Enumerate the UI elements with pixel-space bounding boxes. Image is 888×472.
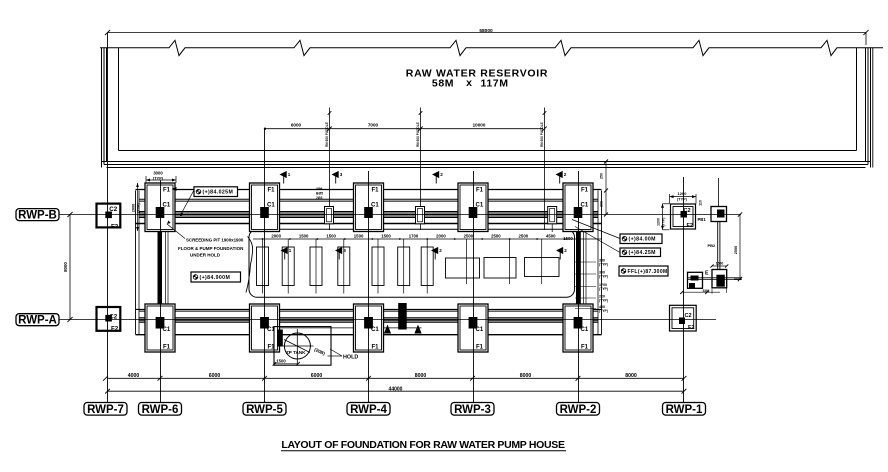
svg-text:6000: 6000 xyxy=(209,373,221,379)
svg-text:C1: C1 xyxy=(163,202,171,208)
svg-text:(TYP): (TYP) xyxy=(677,197,688,201)
svg-text:RN 600 PUDDLE: RN 600 PUDDLE xyxy=(416,122,420,147)
svg-text:(TYP): (TYP) xyxy=(153,175,164,180)
svg-text:58M: 58M xyxy=(432,78,454,90)
svg-text:1500: 1500 xyxy=(354,233,364,238)
svg-text:3Ø6: 3Ø6 xyxy=(316,187,323,191)
svg-text:F1: F1 xyxy=(163,344,171,350)
svg-text:C2: C2 xyxy=(684,208,691,214)
svg-text:58000: 58000 xyxy=(479,28,493,34)
svg-text:2500: 2500 xyxy=(491,233,501,238)
svg-text:8000: 8000 xyxy=(520,373,532,379)
svg-text:(TYP): (TYP) xyxy=(599,299,608,303)
svg-text:6000: 6000 xyxy=(291,123,302,128)
svg-text:F1: F1 xyxy=(581,344,589,350)
svg-text:C1: C1 xyxy=(163,327,171,333)
svg-text:1: 1 xyxy=(289,248,292,253)
svg-text:7000: 7000 xyxy=(368,123,379,128)
svg-text:8000: 8000 xyxy=(625,373,637,379)
svg-text:C1: C1 xyxy=(371,327,379,333)
svg-text:RWP-6: RWP-6 xyxy=(142,404,179,416)
svg-text:RWP-1: RWP-1 xyxy=(666,404,703,416)
svg-text:(TYP): (TYP) xyxy=(599,275,608,279)
svg-text:x: x xyxy=(466,77,472,89)
svg-text:HOLD: HOLD xyxy=(343,355,358,361)
svg-text:8000: 8000 xyxy=(63,262,68,272)
svg-text:RN 600 PUDDLE: RN 600 PUDDLE xyxy=(325,122,329,147)
svg-text:1200: 1200 xyxy=(657,218,661,226)
svg-text:UNDER HOLD: UNDER HOLD xyxy=(190,253,221,258)
svg-text:C2: C2 xyxy=(109,313,117,320)
svg-text:RWP-2: RWP-2 xyxy=(560,404,597,416)
svg-text:F1: F1 xyxy=(372,187,380,193)
svg-text:C1: C1 xyxy=(581,327,589,333)
svg-text:ZP TANK: ZP TANK xyxy=(286,350,306,355)
svg-text:2: 2 xyxy=(439,248,442,253)
svg-text:(TYP): (TYP) xyxy=(599,287,608,291)
svg-text:1500: 1500 xyxy=(716,262,724,266)
svg-text:C1: C1 xyxy=(476,327,484,333)
svg-text:SCREEDING PIT 1900x1900: SCREEDING PIT 1900x1900 xyxy=(186,238,244,243)
svg-text:2: 2 xyxy=(564,172,567,177)
svg-text:F2: F2 xyxy=(111,326,119,333)
svg-text:300: 300 xyxy=(600,201,604,207)
svg-text:2: 2 xyxy=(440,172,443,177)
svg-text:F1: F1 xyxy=(268,187,276,193)
svg-text:(+)84.00M: (+)84.00M xyxy=(629,237,656,243)
svg-text:FFL(+)87.300M: FFL(+)87.300M xyxy=(628,269,668,275)
svg-text:F2: F2 xyxy=(111,223,119,230)
svg-text:4500: 4500 xyxy=(546,233,556,238)
svg-text:3: 3 xyxy=(343,248,346,253)
svg-text:2: 2 xyxy=(564,248,567,253)
svg-text:2Ø3: 2Ø3 xyxy=(316,196,323,200)
svg-text:F1: F1 xyxy=(581,187,589,193)
svg-text:RAW WATER RESERVOIR: RAW WATER RESERVOIR xyxy=(406,68,548,80)
svg-text:117M: 117M xyxy=(480,78,508,90)
svg-text:8000: 8000 xyxy=(415,373,427,379)
svg-text:RWP-3: RWP-3 xyxy=(454,404,491,416)
svg-text:3: 3 xyxy=(340,172,343,177)
svg-text:1500: 1500 xyxy=(326,233,336,238)
svg-text:1500: 1500 xyxy=(381,233,391,238)
svg-text:(TYP): (TYP) xyxy=(137,203,141,213)
svg-text:2000: 2000 xyxy=(132,204,136,212)
svg-text:1500: 1500 xyxy=(299,233,309,238)
svg-text:(TYP): (TYP) xyxy=(599,263,608,267)
svg-text:(+)84.025M: (+)84.025M xyxy=(203,189,234,195)
svg-text:C1: C1 xyxy=(371,202,379,208)
svg-text:F1: F1 xyxy=(372,344,380,350)
svg-text:E: E xyxy=(705,271,709,277)
svg-text:1500: 1500 xyxy=(276,358,286,363)
svg-text:BØ5: BØ5 xyxy=(316,192,323,196)
svg-text:(TYP): (TYP) xyxy=(662,218,666,227)
svg-text:(+)84.25M: (+)84.25M xyxy=(629,250,656,256)
svg-text:RWP-7: RWP-7 xyxy=(87,404,124,416)
svg-text:F1: F1 xyxy=(476,187,484,193)
svg-text:10000: 10000 xyxy=(473,123,486,128)
svg-text:250: 250 xyxy=(600,173,604,179)
svg-text:F1: F1 xyxy=(163,187,171,193)
svg-text:RWP-A: RWP-A xyxy=(18,315,57,327)
svg-text:110: 110 xyxy=(699,200,703,206)
svg-text:1200: 1200 xyxy=(678,191,688,196)
svg-text:C2: C2 xyxy=(109,206,117,213)
svg-text:2000: 2000 xyxy=(436,233,446,238)
svg-text:RN 600 PUDDLE: RN 600 PUDDLE xyxy=(540,122,544,147)
svg-text:PB2: PB2 xyxy=(708,243,717,248)
svg-text:1: 1 xyxy=(288,172,291,177)
svg-text:6000: 6000 xyxy=(311,373,323,379)
svg-text:RWP-4: RWP-4 xyxy=(350,404,387,416)
svg-text:(+)84.900M: (+)84.900M xyxy=(200,275,231,281)
svg-text:F2: F2 xyxy=(687,223,694,229)
svg-text:1700: 1700 xyxy=(409,233,419,238)
svg-text:2500: 2500 xyxy=(464,233,474,238)
svg-text:RWP-5: RWP-5 xyxy=(246,404,283,416)
svg-text:LAYOUT OF FOUNDATION FOR RAW W: LAYOUT OF FOUNDATION FOR RAW WATER PUMP … xyxy=(281,439,565,451)
svg-text:PB1: PB1 xyxy=(698,217,707,222)
svg-text:44000: 44000 xyxy=(389,387,403,393)
svg-text:2500: 2500 xyxy=(519,233,529,238)
svg-text:1500: 1500 xyxy=(563,236,573,241)
svg-text:2500: 2500 xyxy=(734,246,738,254)
svg-text:2000: 2000 xyxy=(271,233,281,238)
svg-text:F2: F2 xyxy=(688,325,695,331)
svg-text:RWP-B: RWP-B xyxy=(18,209,57,221)
svg-text:C2: C2 xyxy=(685,313,692,319)
svg-text:(TYP): (TYP) xyxy=(599,309,608,313)
svg-text:FLOOR & PUMP FOUNDATION: FLOOR & PUMP FOUNDATION xyxy=(178,246,243,251)
svg-text:4000: 4000 xyxy=(128,373,140,379)
svg-text:C1: C1 xyxy=(476,202,484,208)
svg-text:F1: F1 xyxy=(476,344,484,350)
svg-text:C1: C1 xyxy=(267,202,275,208)
svg-text:C1: C1 xyxy=(581,202,589,208)
